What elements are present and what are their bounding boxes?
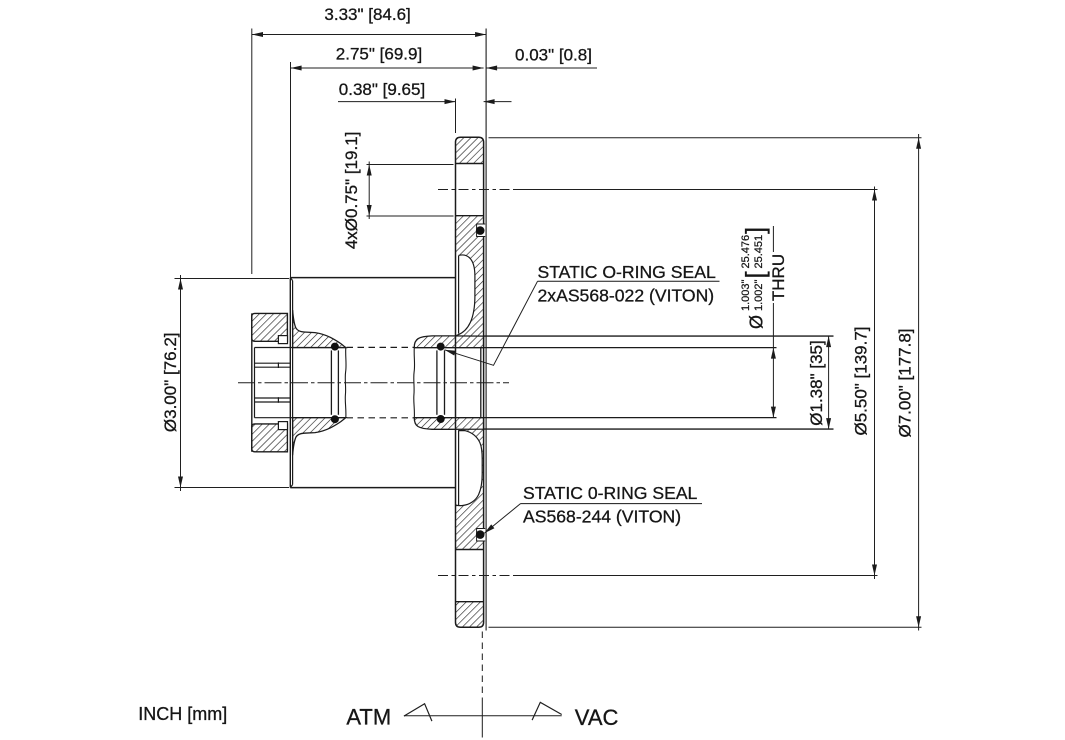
svg-text:1.002": 1.002" bbox=[753, 279, 765, 311]
svg-text:3.33" [84.6]: 3.33" [84.6] bbox=[324, 5, 410, 24]
svg-text:0.03" [0.8]: 0.03" [0.8] bbox=[515, 46, 592, 65]
svg-text:]: ] bbox=[740, 227, 770, 234]
svg-text:Ø: Ø bbox=[747, 315, 767, 329]
svg-text:Ø7.00" [177.8]: Ø7.00" [177.8] bbox=[896, 328, 915, 437]
svg-text:[: [ bbox=[740, 271, 770, 279]
svg-text:STATIC O-RING SEAL: STATIC O-RING SEAL bbox=[538, 262, 716, 282]
svg-text:VAC: VAC bbox=[575, 705, 619, 730]
svg-text:INCH [mm]: INCH [mm] bbox=[138, 704, 227, 724]
svg-text:Ø1.38" [35]: Ø1.38" [35] bbox=[807, 340, 826, 425]
svg-text:THRU: THRU bbox=[769, 254, 788, 301]
svg-text:ATM: ATM bbox=[346, 704, 391, 729]
svg-text:Ø5.50" [139.7]: Ø5.50" [139.7] bbox=[852, 326, 871, 435]
svg-text:1.003": 1.003" bbox=[740, 279, 752, 311]
svg-text:2xAS568-022 (VITON): 2xAS568-022 (VITON) bbox=[538, 285, 715, 305]
svg-text:4xØ0.75" [19.1]: 4xØ0.75" [19.1] bbox=[342, 132, 361, 250]
svg-text:AS568-244 (VITON): AS568-244 (VITON) bbox=[523, 507, 681, 527]
svg-text:25.476: 25.476 bbox=[740, 235, 752, 269]
svg-text:2.75" [69.9]: 2.75" [69.9] bbox=[336, 45, 422, 64]
svg-text:0.38" [9.65]: 0.38" [9.65] bbox=[339, 80, 425, 99]
svg-text:25.451: 25.451 bbox=[753, 235, 765, 269]
svg-text:STATIC 0-RING SEAL: STATIC 0-RING SEAL bbox=[523, 483, 698, 503]
svg-text:Ø3.00" [76.2]: Ø3.00" [76.2] bbox=[161, 332, 180, 432]
